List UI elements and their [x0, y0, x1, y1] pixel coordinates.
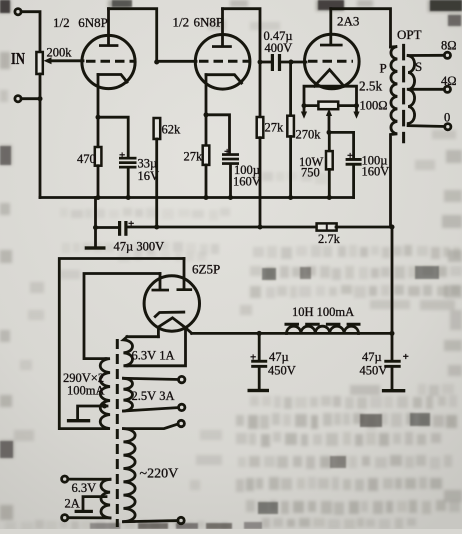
wire 2A3 plate to OPT — [331, 9, 391, 47]
node PT center tap — [102, 404, 107, 409]
label 1/2 6N8P — [53, 15, 108, 30]
tube V1 1/2 6N8P envelope — [82, 35, 135, 88]
6Z5P cathode — [155, 312, 184, 316]
label 27k (plate load) — [265, 121, 285, 135]
label OPT — [397, 27, 422, 42]
wire 6.3V top lead — [68, 478, 110, 481]
svg-text:~220V: ~220V — [140, 467, 179, 482]
wire 220V bottom lead — [124, 521, 178, 522]
arrow to filament winding right — [353, 106, 359, 119]
svg-text:6Z5P: 6Z5P — [192, 262, 220, 277]
wire V1 plate top rail — [109, 9, 157, 62]
PT mains 220V winding — [124, 429, 136, 522]
node V1 plate / V2 grid — [154, 60, 159, 65]
wire 220V top lead — [124, 424, 179, 429]
wire 4 ohm tap — [408, 88, 444, 91]
svg-text:750: 750 — [301, 166, 320, 180]
wire 8 ohm tap — [408, 54, 444, 57]
resistor 270k grid leak — [287, 62, 294, 198]
V1 grid (dashed) — [86, 60, 134, 63]
svg-text:P: P — [380, 61, 387, 76]
choke 10H 100mA — [285, 324, 361, 333]
terminal 0 — [445, 124, 451, 130]
capacitor 47u 450V left — [250, 333, 267, 388]
resistor 27k cathode — [203, 146, 210, 198]
label 10H 100mA — [292, 305, 354, 319]
resistor 470 — [95, 147, 102, 198]
wire filament right to winding — [127, 328, 186, 366]
wire cathode node to 33u — [98, 117, 128, 156]
label 160V (2A3) — [362, 165, 390, 179]
transformer OPT primary — [391, 47, 398, 228]
label 100u — [234, 163, 260, 177]
wire wiper to 100u cap — [329, 132, 354, 157]
svg-text:400V: 400V — [265, 41, 293, 55]
2A3 plate — [320, 9, 343, 47]
wire cap to 2A3 grid — [281, 61, 306, 64]
svg-text:OPT: OPT — [397, 27, 422, 42]
wire 6.3V bottom lead — [68, 516, 110, 519]
svg-text:450V: 450V — [268, 364, 296, 378]
node left filter cap — [257, 331, 262, 336]
node rail2 dots — [154, 225, 262, 230]
label 450V (left) — [268, 364, 296, 378]
wire ground rail — [40, 196, 354, 199]
V1 plate — [99, 9, 118, 47]
label 2.5V 3A — [132, 389, 175, 403]
wire B+ output — [192, 332, 287, 335]
label 200k — [47, 46, 73, 60]
arrow to filament winding left — [301, 106, 307, 119]
terminal 6.3V bottom — [62, 515, 68, 521]
label 750 — [301, 166, 320, 180]
node 2A3 grid — [289, 60, 294, 65]
node rail dots — [96, 195, 332, 200]
node B+ column choke — [390, 331, 395, 336]
svg-text:+: + — [347, 150, 353, 162]
potentiometer 200k — [36, 52, 51, 74]
V2 grid (dashed) — [199, 60, 249, 63]
V2 cathode — [206, 75, 242, 83]
power transformer core (dashed) — [116, 339, 119, 527]
capacitor 0.47u 400V — [271, 54, 281, 71]
node rail2 / B+ column — [390, 225, 395, 230]
svg-text:6.3V 1A: 6.3V 1A — [132, 349, 175, 363]
svg-text:2.5k: 2.5k — [359, 79, 382, 94]
svg-text:100Ω: 100Ω — [360, 99, 388, 113]
label 2.5k — [359, 79, 382, 94]
label 47u (right) — [362, 350, 382, 364]
svg-text:27k: 27k — [265, 121, 285, 135]
label S — [415, 59, 422, 74]
wire to 47u300V — [96, 226, 119, 229]
wire 2.5V bottom lead — [124, 408, 179, 411]
label 47u 300V — [114, 240, 165, 254]
label 0 — [444, 111, 450, 125]
svg-text:160V: 160V — [233, 175, 261, 189]
wire center tap — [78, 406, 107, 419]
terminal 6.3V top — [62, 476, 68, 482]
node V2 plate / coupling — [258, 60, 263, 65]
svg-text:270k: 270k — [296, 128, 322, 142]
svg-text:2A3: 2A3 — [337, 14, 359, 29]
capacitor 47u 300V — [118, 218, 134, 236]
tube 6Z5P envelope — [144, 276, 199, 331]
label 100mA — [67, 384, 105, 398]
svg-text:27k: 27k — [184, 150, 204, 164]
svg-text:2A: 2A — [65, 497, 80, 511]
label 2.7k — [318, 232, 341, 246]
svg-text:10H 100mA: 10H 100mA — [292, 305, 354, 319]
tube V2 1/2 6N8P envelope — [195, 35, 250, 90]
svg-text:1/2 6N8P: 1/2 6N8P — [173, 15, 224, 30]
wire rail2 right — [336, 226, 392, 229]
terminal 220V bottom — [178, 517, 184, 523]
ground (6.3V center tap) — [75, 510, 93, 513]
2A3 filament — [314, 70, 344, 87]
label 33u — [138, 157, 158, 171]
wire B+ column — [391, 227, 394, 360]
wire cathode node to 100u — [206, 115, 230, 153]
svg-text:47µ: 47µ — [269, 350, 289, 364]
node V2 cathode junction — [204, 112, 209, 117]
svg-text:0: 0 — [444, 111, 450, 125]
svg-text:IN: IN — [11, 49, 26, 68]
node wiper junction — [327, 130, 332, 135]
label 290Vx2 — [63, 371, 104, 385]
wire B+ rail 2 — [128, 226, 317, 229]
tube 2A3 envelope — [305, 34, 360, 89]
PT 6.3V 2A winding — [101, 479, 110, 518]
label 8 ohm — [441, 39, 457, 53]
terminal 8 ohm — [444, 52, 450, 58]
resistor 62k — [154, 118, 161, 227]
svg-text:6.3V: 6.3V — [72, 481, 97, 495]
wire filament bar — [304, 86, 357, 105]
V2 plate — [212, 9, 232, 48]
label 47u (left) — [269, 350, 289, 364]
wire — [21, 12, 40, 52]
node cap junction — [93, 225, 98, 230]
capacitor 33u 16V — [119, 150, 137, 198]
label 1/2 6N8P (V2) — [173, 15, 224, 30]
svg-text:62k: 62k — [162, 123, 182, 137]
svg-text:160V: 160V — [362, 165, 390, 179]
label IN — [11, 49, 26, 68]
label 62k — [162, 123, 182, 137]
wire ground drop — [94, 198, 97, 247]
svg-text:+: + — [403, 351, 409, 363]
wire V1 cathode down — [97, 75, 100, 148]
wire — [21, 97, 40, 100]
label 4 ohm — [441, 74, 457, 88]
label 6.3V 1A — [132, 349, 175, 363]
label 2A — [65, 497, 80, 511]
terminal 220V top — [178, 420, 184, 426]
svg-text:470: 470 — [77, 152, 96, 166]
svg-text:+: + — [119, 150, 125, 162]
wire to V2 grid — [157, 60, 196, 63]
svg-text:1/2 6N8P: 1/2 6N8P — [53, 15, 108, 30]
svg-text:200k: 200k — [47, 46, 73, 60]
terminal 2.5V top — [179, 376, 185, 382]
svg-text:S: S — [415, 59, 422, 74]
svg-text:+: + — [224, 146, 230, 158]
label 270k — [296, 128, 322, 142]
potentiometer 100 ohm hum balance — [304, 102, 357, 133]
wire 2.5V top lead — [124, 378, 179, 379]
capacitor 100u 160V (V2 cathode) — [222, 146, 239, 198]
resistor 750 10W — [326, 132, 333, 197]
label P — [380, 61, 387, 76]
resistor 2.7k — [317, 223, 337, 230]
label 100u (2A3) — [362, 154, 388, 168]
label 450V (right) — [360, 364, 388, 378]
wire choke to B+ column — [359, 332, 393, 335]
svg-text:+: + — [250, 352, 256, 364]
input terminal bottom — [15, 96, 21, 102]
svg-text:8Ω: 8Ω — [441, 39, 457, 53]
ground (PT center tap) — [67, 419, 90, 422]
label 16V — [138, 169, 160, 183]
svg-text:4Ω: 4Ω — [441, 74, 457, 88]
node filament left — [302, 103, 307, 108]
wire wiper to V1 grid — [51, 59, 83, 62]
resistor 27k plate load V2 — [257, 62, 264, 227]
label 160V — [233, 175, 261, 189]
PT primary 290Vx2 winding — [100, 359, 110, 429]
PT 6.3V 1A winding — [124, 337, 133, 366]
6Z5P plate left — [152, 274, 170, 292]
V1 cathode — [98, 75, 127, 83]
wire plate right loop — [59, 259, 184, 429]
wire 0 tap — [408, 124, 445, 128]
input terminal top — [15, 9, 21, 15]
label 10W — [299, 155, 324, 169]
label ~220V — [140, 467, 179, 482]
OPT core (dashed) — [402, 44, 405, 143]
6Z5P plate right — [177, 259, 193, 292]
PT 2.5V 3A winding — [124, 378, 133, 411]
svg-text:47µ: 47µ — [362, 350, 382, 364]
label 6Z5P — [192, 262, 220, 277]
ground — [85, 246, 106, 249]
label 400V — [265, 41, 293, 55]
label 2A3 — [337, 14, 359, 29]
node filament right — [354, 103, 359, 108]
label 470 — [77, 152, 96, 166]
label 0.47u — [264, 29, 293, 43]
transformer OPT secondary — [408, 56, 414, 126]
svg-text:2.7k: 2.7k — [318, 232, 341, 246]
svg-text:100mA: 100mA — [67, 384, 105, 398]
label 6.3V (heater) — [72, 481, 97, 495]
terminal 2.5V bottom — [179, 404, 185, 410]
ground (right filter cap) — [382, 389, 405, 392]
capacitor 47u 450V right — [384, 351, 409, 389]
capacitor 100u 160V (2A3 bias) — [346, 150, 362, 198]
wire V2 cathode down — [205, 75, 208, 146]
svg-text:450V: 450V — [360, 364, 388, 378]
node: pot bottom junction — [38, 96, 43, 101]
terminal 4 ohm — [444, 86, 450, 92]
svg-text:47µ 300V: 47µ 300V — [114, 240, 165, 254]
wire filament left to winding — [127, 335, 158, 338]
label 100 ohm — [360, 99, 388, 113]
6Z5P filament — [158, 318, 191, 337]
wire V2 plate top rail — [223, 9, 261, 62]
2A3 grid (dashed) — [308, 60, 353, 63]
label 27k — [184, 150, 204, 164]
node V1 cathode junction — [96, 115, 101, 120]
wire 6.3V center tap — [83, 497, 106, 510]
ground (left filter cap) — [248, 389, 270, 392]
wire to coupling cap — [260, 61, 271, 64]
wire pot bottom to ground rail — [39, 74, 42, 198]
svg-text:2.5V 3A: 2.5V 3A — [132, 389, 175, 403]
wire plate left loop — [84, 274, 160, 359]
